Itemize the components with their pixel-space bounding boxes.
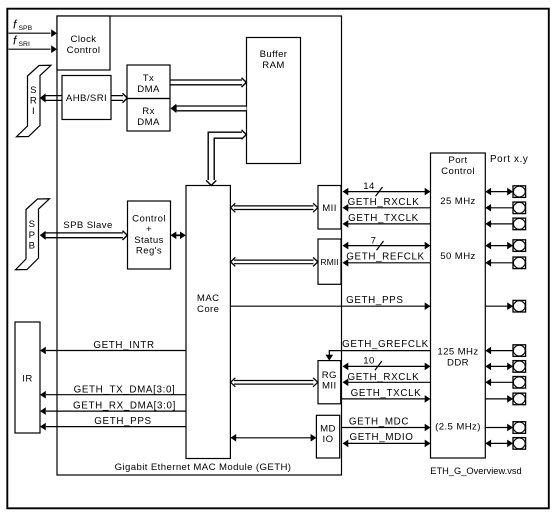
block Port Control — [431, 153, 486, 458]
svg-text:GETH_REFCLK: GETH_REFCLK — [346, 252, 424, 263]
svg-text:Control: Control — [132, 214, 166, 225]
wire MAC Core to MD IO (solid double arrow) — [230, 434, 316, 442]
svg-text:Control: Control — [67, 45, 101, 56]
block Control + Status Reg's — [128, 201, 171, 269]
port pad 7 — [513, 345, 526, 357]
svg-text:GETH_PPS: GETH_PPS — [346, 295, 403, 306]
svg-text:S: S — [30, 85, 37, 96]
bus elbow Buffer RAM to MAC Core (hollow, open V heads both ends) — [206, 130, 246, 186]
block Clock Control — [57, 16, 110, 70]
bus symbol SRI — [17, 65, 52, 136]
svg-text:AHB/SRI: AHB/SRI — [66, 93, 107, 104]
block RMII — [318, 239, 341, 284]
svg-text:GETH_GREFCLK: GETH_GREFCLK — [342, 339, 429, 350]
svg-text:GETH_INTR: GETH_INTR — [93, 340, 154, 351]
svg-text:GETH_PPS: GETH_PPS — [94, 416, 151, 427]
wire port line 1 — [485, 188, 513, 196]
block Rx DMA — [127, 99, 170, 132]
svg-text:GETH_TXCLK: GETH_TXCLK — [348, 213, 419, 224]
svg-text:Port x.y: Port x.y — [490, 154, 528, 165]
svg-text:DDR: DDR — [447, 357, 469, 368]
wire GETH_RXCLK (MII) — [343, 197, 431, 212]
bus arrow MAC Core to RMII (hollow, open V both ends) — [231, 257, 318, 266]
block MII — [318, 186, 341, 230]
port pad 2 — [513, 202, 526, 214]
block Tx DMA — [127, 65, 170, 99]
wire GETH_RXCLK (RG MII) — [343, 372, 431, 386]
svg-text:IO: IO — [323, 434, 334, 445]
bus arrow Buffer RAM to Rx DMA (hollow, solid left head) — [171, 104, 247, 113]
svg-text:50 MHz: 50 MHz — [440, 251, 475, 262]
block MAC Core — [186, 186, 230, 459]
svg-text:SRI: SRI — [19, 41, 30, 48]
svg-text:(2.5 MHz): (2.5 MHz) — [435, 422, 481, 433]
bus arrow MAC Core to MII (hollow, open V both ends) — [231, 203, 318, 212]
port pad 5 — [513, 257, 526, 269]
wire GETH_TXCLK (RG MII to Port Control) — [342, 388, 431, 403]
svg-text:Core: Core — [197, 304, 219, 315]
bus arrow AHB/SRI to SRI (hollow shaft, solid left head) — [40, 93, 62, 102]
svg-text:Gigabit Ethernet MAC Module (G: Gigabit Ethernet MAC Module (GETH) — [115, 462, 292, 473]
wire port line 12 — [485, 440, 513, 448]
svg-text:GETH_TXCLK: GETH_TXCLK — [351, 388, 422, 399]
svg-text:Reg's: Reg's — [136, 246, 162, 257]
svg-text:ETH_G_Overview.vsd: ETH_G_Overview.vsd — [430, 466, 521, 476]
svg-text:125 MHz: 125 MHz — [437, 346, 478, 357]
port pad 11 — [513, 422, 526, 434]
svg-text:MD: MD — [320, 424, 336, 435]
svg-text:RMII: RMII — [320, 257, 338, 267]
wire GETH_TX_DMA[3:0] from MAC Core to IR — [40, 384, 186, 398]
wire fSPB arrow into Clock Control — [9, 29, 58, 37]
port pad 9 — [513, 377, 526, 389]
label fSPB — [13, 18, 33, 33]
svg-text:GETH_TX_DMA[3:0]: GETH_TX_DMA[3:0] — [74, 384, 176, 395]
svg-text:7: 7 — [371, 236, 377, 247]
wire port line 7 — [485, 347, 513, 355]
wire port line 4 — [485, 242, 513, 250]
wire port line 9 — [485, 379, 513, 387]
port pad 12 — [513, 438, 526, 450]
wire bus 7 between RMII and Port Control — [343, 236, 431, 251]
svg-text:GETH_RX_DMA[3:0]: GETH_RX_DMA[3:0] — [73, 401, 176, 412]
block IR — [15, 322, 40, 433]
label fSRI — [13, 34, 30, 49]
wire GETH_RX_DMA[3:0] from MAC Core to IR — [40, 401, 186, 415]
wire GETH_TXCLK (MII) — [343, 213, 431, 228]
svg-text:MII: MII — [322, 203, 337, 214]
svg-text:Clock: Clock — [71, 34, 97, 45]
svg-text:SPB: SPB — [19, 25, 33, 32]
wire fSRI arrow into Clock Control — [9, 45, 58, 53]
wire GETH_PPS (MAC to Port Control) — [230, 295, 430, 310]
wire port line 5 — [485, 259, 513, 267]
port pad 8 — [513, 361, 526, 373]
module Gigabit Ethernet MAC Module (GETH) — [57, 16, 342, 475]
svg-text:P: P — [29, 230, 36, 241]
svg-text:IR: IR — [22, 374, 32, 385]
wire port line 6 — [485, 302, 513, 310]
wire port line 8 — [485, 363, 513, 371]
svg-text:DMA: DMA — [137, 84, 160, 95]
svg-text:Tx: Tx — [143, 73, 154, 84]
wire port line 3 — [485, 220, 513, 228]
bus arrow MAC Core to RG MII (hollow, open V both ends) — [231, 378, 318, 387]
svg-text:RG: RG — [322, 370, 337, 381]
svg-text:10: 10 — [363, 356, 374, 367]
svg-text:Rx: Rx — [142, 106, 155, 117]
svg-text:MAC: MAC — [197, 293, 220, 304]
port pad 6 — [513, 300, 526, 312]
block MD IO — [316, 415, 339, 458]
svg-text:DMA: DMA — [137, 117, 160, 128]
wire bus 10 between RG MII and Port Control — [343, 356, 431, 371]
wire bus 14 between MII and Port Control — [343, 181, 431, 196]
port pad 1 — [513, 186, 526, 198]
svg-text:B: B — [29, 241, 36, 252]
wire GETH_PPS from MAC Core to IR — [40, 416, 186, 430]
svg-text:GETH_MDIO: GETH_MDIO — [349, 432, 413, 443]
svg-text:Status: Status — [134, 235, 164, 246]
wire Control/Status to MAC Core (solid double arrow) — [171, 232, 186, 240]
svg-text:R: R — [30, 96, 37, 107]
wire GETH_INTR from MAC Core to IR — [40, 340, 186, 354]
svg-text:I: I — [32, 106, 35, 117]
block RG MII — [318, 361, 341, 404]
svg-text:Control: Control — [441, 166, 475, 177]
bus symbol SPB — [16, 199, 50, 270]
svg-text:S: S — [29, 219, 36, 230]
port pad 10 — [513, 393, 526, 405]
block Buffer RAM — [247, 38, 301, 164]
svg-text:GETH_RXCLK: GETH_RXCLK — [348, 197, 420, 208]
svg-text:Buffer: Buffer — [260, 49, 288, 60]
svg-text:25 MHz: 25 MHz — [440, 196, 475, 207]
wire port line 2 — [485, 204, 513, 212]
svg-text:+: + — [146, 224, 152, 235]
wire port line 10 — [485, 395, 513, 403]
svg-text:Port: Port — [448, 155, 467, 166]
svg-text:GETH_RXCLK: GETH_RXCLK — [347, 372, 419, 383]
bus arrow Tx DMA to Buffer RAM (hollow, open V right head) — [170, 78, 246, 87]
svg-text:14: 14 — [363, 181, 375, 192]
port pad 3 — [513, 218, 526, 230]
svg-text:SPB Slave: SPB Slave — [63, 220, 112, 231]
block AHB/SRI — [62, 76, 111, 120]
wire port line 11 — [485, 424, 513, 432]
svg-text:RAM: RAM — [262, 60, 285, 71]
port pad 4 — [513, 240, 526, 252]
svg-text:GETH_MDC: GETH_MDC — [349, 417, 409, 428]
svg-text:MII: MII — [322, 381, 337, 392]
bus arrow SPB to Control/Status (hollow, solid left head, open V right head) — [40, 231, 128, 240]
wire GETH_REFCLK (RMII) — [343, 252, 431, 267]
wire GETH_MDC (MD IO to Port Control) — [342, 417, 431, 432]
wire GETH_GREFCLK (Port Control to RG MII, elbow down) — [326, 339, 431, 361]
wire GETH_MDIO (MD IO to Port Control, double arrow) — [343, 432, 431, 447]
bus arrow AHB/SRI to Tx/Rx DMA (hollow, open V right head) — [111, 93, 127, 102]
